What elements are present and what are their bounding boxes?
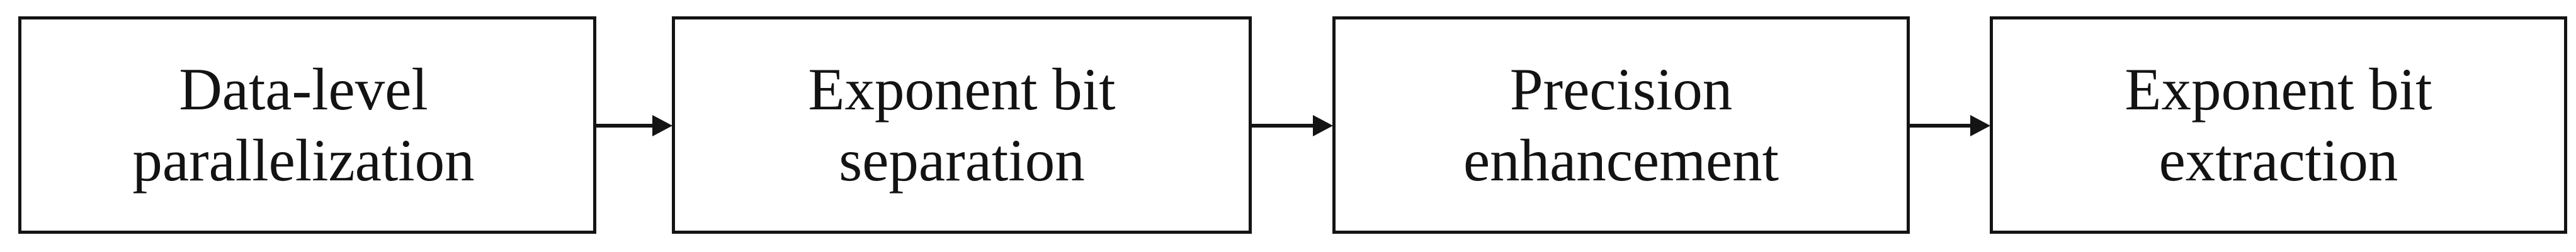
arrow A1 line	[594, 124, 657, 128]
arrow A2 head	[1313, 115, 1333, 136]
box B3: Precision enhancement	[1332, 16, 1910, 234]
box B1: Data-level parallelization	[18, 16, 596, 234]
box B4: Exponent bit extraction	[1990, 16, 2567, 234]
arrow A3 line	[1907, 124, 1970, 128]
arrow A3 head	[1970, 115, 1990, 136]
arrow A1 head	[652, 115, 672, 136]
box B2: Exponent bit separation	[672, 16, 1252, 234]
arrow A2 line	[1249, 124, 1314, 128]
